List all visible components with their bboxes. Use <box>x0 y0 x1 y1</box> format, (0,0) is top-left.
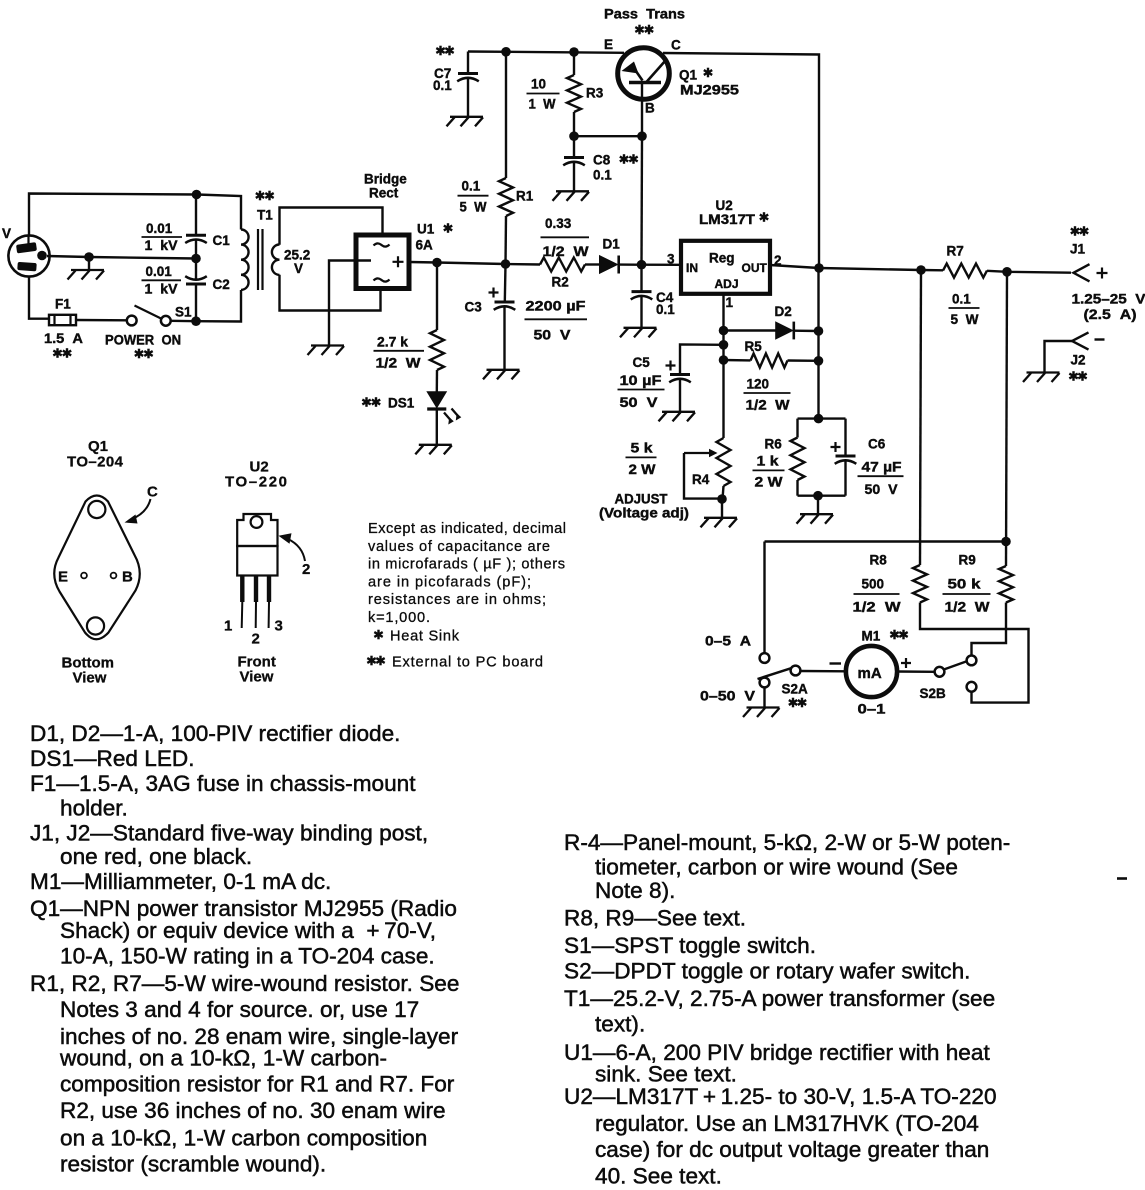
svg-text:Q1: Q1 <box>679 68 698 83</box>
arrow 2 to tab <box>279 533 306 561</box>
wire ADJ pin down <box>722 293 724 438</box>
wire meter rail to 0-5A terminal <box>763 542 765 653</box>
fraction bar R3 <box>527 93 560 95</box>
svg-text:3: 3 <box>275 618 283 635</box>
wire midpoint to C2 <box>195 259 197 280</box>
svg-text:R2, use 36 inches of no. 30 en: R2, use 36 inches of no. 30 enam wire <box>60 1098 446 1123</box>
label + (meter) <box>901 658 911 668</box>
svg-text:View: View <box>240 669 274 686</box>
wire R3 to C8 node <box>573 112 575 136</box>
svg-text:1 k: 1 k <box>757 454 780 469</box>
wire R4 ground stem <box>721 499 723 517</box>
potentiometer R4 <box>717 438 731 486</box>
capacitor C6 plus mark <box>831 442 841 452</box>
junction C1-C2 midpoint <box>191 254 201 264</box>
svg-text:V: V <box>294 261 303 276</box>
switch S2A 0-5A terminal <box>760 653 770 663</box>
fraction bar C2 <box>142 279 182 281</box>
capacitor C4 <box>632 290 652 293</box>
ground below C3 <box>483 370 520 380</box>
svg-text:ADJ: ADJ <box>715 277 739 291</box>
svg-text:1: 1 <box>224 618 232 635</box>
ground below R4 <box>701 518 738 528</box>
svg-text:R8, R9—See text.: R8, R9—See text. <box>564 906 746 931</box>
junction top rail R3 <box>569 47 579 57</box>
resistor R2 <box>540 258 585 272</box>
switch S2B lower terminal <box>967 682 977 692</box>
svg-text:500: 500 <box>862 577 885 592</box>
wire ADJ to R5 <box>724 359 751 362</box>
svg-text:TO–204: TO–204 <box>67 454 124 471</box>
svg-text:are in picofarads (pF);: are in picofarads (pF); <box>368 574 531 590</box>
svg-text:S2B: S2B <box>920 686 947 701</box>
svg-text:1.25–25 V: 1.25–25 V <box>1072 292 1145 307</box>
svg-text:50 V: 50 V <box>620 395 658 410</box>
switch S2A common terminal <box>791 666 801 676</box>
svg-text:S1: S1 <box>175 305 192 320</box>
svg-text:0.33: 0.33 <box>545 216 572 231</box>
wire R6 bottom <box>796 480 798 496</box>
wire ADJ to D2 <box>724 329 777 331</box>
LED DS1 <box>427 392 446 409</box>
parts list left column <box>30 721 459 1177</box>
transformer T1 secondary winding <box>272 245 280 275</box>
note ** below POWER <box>135 349 153 359</box>
svg-text:DS1—Red LED.: DS1—Red LED. <box>30 746 195 771</box>
wire R6 top <box>796 419 798 438</box>
svg-text:mA: mA <box>858 665 882 682</box>
switch S2B lever <box>945 661 967 669</box>
wire bridge + output <box>410 262 541 265</box>
junction at Q1 base column <box>637 260 647 270</box>
switch S1 lever <box>135 306 162 319</box>
note ** above C7 <box>436 46 453 56</box>
svg-text:Shack) or equiv device with a: Shack) or equiv device with a + 70-V, <box>60 918 436 943</box>
junction R4 ground <box>717 494 727 504</box>
svg-text:C5: C5 <box>633 355 651 370</box>
junction main rail at C3/R1 <box>501 259 511 269</box>
svg-text:1: 1 <box>726 295 734 310</box>
svg-text:R-4—Panel-mount, 5-kΩ, 2-W or: R-4—Panel-mount, 5-kΩ, 2-W or 5-W poten- <box>564 830 1010 855</box>
svg-text:LM317T: LM317T <box>699 212 756 227</box>
note ** above J1 <box>1071 226 1088 236</box>
wire plug mid to C1-C2 midpoint <box>47 256 196 259</box>
junction right column R6C6 top <box>814 414 824 424</box>
svg-text:M1—Milliammeter, 0-1 mA dc.: M1—Milliammeter, 0-1 mA dc. <box>30 869 331 894</box>
svg-text:0–50 V: 0–50 V <box>700 689 755 704</box>
transistor Q1 TO-204 outline <box>54 496 140 640</box>
wire R5 to right column <box>788 359 819 362</box>
fraction bar R6 <box>753 469 785 471</box>
switch S2A lever <box>758 668 791 679</box>
svg-text:R2: R2 <box>552 275 569 290</box>
svg-text:2 W: 2 W <box>629 462 656 477</box>
wire R9 column <box>1006 272 1007 566</box>
wire C8 to ground <box>573 162 575 191</box>
wire 2.7k to LED <box>436 370 439 392</box>
svg-text:3: 3 <box>667 252 675 267</box>
note ** before DS1 <box>362 397 380 407</box>
svg-text:B: B <box>122 569 133 586</box>
wire C5 to ground <box>679 379 681 411</box>
svg-text:1/2 W: 1/2 W <box>376 356 421 371</box>
svg-text:DS1: DS1 <box>388 396 415 411</box>
note ** below F1 <box>53 348 71 358</box>
svg-text:1 kV: 1 kV <box>145 281 178 296</box>
svg-text:S2—DPDT toggle or rotary wafer: S2—DPDT toggle or rotary wafer switch. <box>564 959 970 984</box>
fraction bar 2.7k <box>374 350 425 352</box>
regulator U2 TO-220 outline <box>237 514 277 628</box>
svg-text:2200 µF: 2200 µF <box>526 299 586 314</box>
wire R6C6 top rail <box>798 417 846 419</box>
wire LED to ground <box>436 409 438 444</box>
capacitor C8 <box>564 156 584 159</box>
svg-text:Rect: Rect <box>369 186 399 201</box>
wire R2 to D1 <box>585 263 600 265</box>
resistor R8 <box>913 565 927 603</box>
resistor R9 <box>999 566 1013 603</box>
switch S2A 0-50V terminal <box>760 678 770 688</box>
wire C1 stem <box>195 195 197 235</box>
wire C6 bottom <box>844 461 846 496</box>
svg-text:Reg: Reg <box>709 251 735 266</box>
R4 wiper arrow <box>684 449 718 458</box>
note * Heat Sink <box>374 630 382 640</box>
junction right column D2 <box>814 326 824 336</box>
wire C8 node to base column <box>574 135 642 137</box>
svg-text:1 W: 1 W <box>529 97 556 112</box>
wire R8 to S2B lower <box>920 603 1029 703</box>
junction top rail R1 <box>501 47 511 57</box>
wire R4 bottom <box>723 486 724 499</box>
wire base column to main rail <box>640 136 643 265</box>
svg-text:C2: C2 <box>213 277 230 292</box>
wire C5 tap <box>680 344 724 374</box>
wire ground stem <box>88 257 90 270</box>
wire C7 to ground <box>467 78 469 116</box>
svg-text:one red, one black.: one red, one black. <box>60 844 252 869</box>
binding post J1 <box>1074 264 1090 281</box>
wire plug top to transformer primary top <box>29 194 241 236</box>
svg-text:T1—25.2-V, 2.75-A power transf: T1—25.2-V, 2.75-A power transformer (see <box>564 986 995 1011</box>
svg-text:5 k: 5 k <box>631 441 654 456</box>
svg-text:E: E <box>604 37 613 52</box>
junction OUT and collector column <box>814 263 824 273</box>
AC plug V <box>8 235 49 276</box>
wire D1 to LM317 IN <box>619 263 681 266</box>
fraction bar C6 <box>858 475 904 477</box>
wire R1 to main rail <box>504 216 507 264</box>
wire C3 stem <box>504 264 507 302</box>
wire R8 column <box>920 270 921 565</box>
ground below J2 <box>1023 373 1060 383</box>
junction ADJ-D2 <box>719 326 729 336</box>
svg-text:B: B <box>645 101 655 116</box>
ground chassis at plug mid <box>68 270 105 280</box>
svg-text:50 k: 50 k <box>948 577 982 592</box>
svg-text:2: 2 <box>252 631 260 648</box>
svg-text:R4: R4 <box>692 472 710 487</box>
svg-text:C8: C8 <box>593 153 611 168</box>
svg-text:R3: R3 <box>586 86 604 101</box>
bridge AC symbol top <box>374 243 390 246</box>
svg-text:on a 10-kΩ, 1-W carbon composi: on a 10-kΩ, 1-W carbon composition <box>60 1126 427 1151</box>
junction right column R5 <box>814 356 824 366</box>
wire R7 to J1 <box>987 271 1071 273</box>
transformer T1 core <box>258 229 263 290</box>
ground below C7 <box>447 117 484 127</box>
capacitor C7 stem <box>467 52 469 74</box>
svg-text:C6: C6 <box>868 437 886 452</box>
junction ADJ-R5 <box>719 355 729 365</box>
svg-text:R9: R9 <box>959 553 976 568</box>
junction at plug mid ground tap <box>84 252 94 262</box>
switch S2B common terminal <box>935 667 945 677</box>
wire D2 to right column <box>794 330 819 333</box>
capacitor C5 plus mark <box>666 361 676 371</box>
junction above C1 <box>192 190 202 200</box>
svg-text:1.5 A: 1.5 A <box>44 331 83 346</box>
svg-text:U2: U2 <box>716 198 733 213</box>
svg-text:U1: U1 <box>417 222 435 237</box>
wire secondary bottom to bridge <box>280 275 381 311</box>
svg-text:1 kV: 1 kV <box>145 238 178 253</box>
svg-text:2 W: 2 W <box>755 474 783 489</box>
arrow C to case <box>125 499 151 524</box>
svg-text:R7: R7 <box>947 244 964 259</box>
svg-text:T1: T1 <box>257 208 273 223</box>
fraction bar R2 <box>541 236 590 238</box>
svg-text:TO–220: TO–220 <box>225 474 287 491</box>
note * after LM317T <box>760 212 768 222</box>
junction R9 tap <box>1002 267 1012 277</box>
svg-text:5 W: 5 W <box>951 312 979 327</box>
svg-text:S1—SPST toggle switch.: S1—SPST toggle switch. <box>564 933 816 958</box>
capacitor C4 stem <box>640 265 642 292</box>
svg-text:10: 10 <box>531 77 546 92</box>
wire fuse to switch S1 <box>76 319 127 322</box>
svg-text:OUT: OUT <box>742 261 768 275</box>
fraction bar R5 <box>744 392 791 394</box>
note ** Pass Trans <box>635 25 653 35</box>
capacitor C6 <box>836 455 856 458</box>
wire Q1 collector to right column <box>663 53 819 268</box>
transformer T1 primary winding <box>241 230 249 290</box>
wire Q1 base down <box>641 83 643 136</box>
resistor 2.7k <box>430 330 444 370</box>
svg-text:S2A: S2A <box>782 682 809 697</box>
svg-text:0.1: 0.1 <box>952 292 971 307</box>
svg-text:50 V: 50 V <box>865 482 898 497</box>
capacitor C5 <box>670 373 690 376</box>
svg-text:0.01: 0.01 <box>146 264 173 279</box>
svg-text:sink. See text.: sink. See text. <box>595 1062 737 1087</box>
capacitor C8 stem <box>573 136 575 157</box>
svg-text:J1: J1 <box>1070 242 1086 257</box>
switch S1 left terminal <box>127 316 137 326</box>
svg-text:wound, on a 10-kΩ, 1-W carbon-: wound, on a 10-kΩ, 1-W carbon- <box>59 1046 387 1071</box>
svg-text:5 W: 5 W <box>460 200 487 215</box>
capacitor C3 <box>495 301 515 304</box>
junction C8 left <box>569 131 579 141</box>
svg-text:0.1: 0.1 <box>433 78 452 93</box>
wire 0-50V ground stem <box>763 688 765 707</box>
resistor R7 <box>943 264 987 278</box>
bridge AC symbol bottom <box>374 278 390 281</box>
svg-text:resistances are in ohms;: resistances are in ohms; <box>368 592 546 608</box>
wire top rail left <box>468 52 624 53</box>
binding post J2 <box>1072 332 1089 349</box>
ground below DS1 <box>415 445 452 455</box>
svg-text:50 V: 50 V <box>534 328 571 343</box>
svg-text:holder.: holder. <box>60 796 128 821</box>
wire switch to transformer primary bottom <box>171 290 241 322</box>
svg-text:F1: F1 <box>55 297 71 312</box>
wire C6 top <box>844 419 846 456</box>
wire C4 to ground <box>640 296 642 327</box>
note ** below S2A <box>789 698 806 708</box>
svg-text:0–5 A: 0–5 A <box>705 634 751 649</box>
fraction bar C1 <box>142 236 183 238</box>
svg-text:MJ2955: MJ2955 <box>680 83 740 98</box>
svg-text:Bridge: Bridge <box>364 172 407 187</box>
resistor R5 <box>751 354 788 368</box>
note ** after M1 <box>890 630 907 640</box>
svg-text:Note 8).: Note 8). <box>595 878 675 903</box>
note ** below J2 <box>1069 371 1086 381</box>
svg-text:0.1: 0.1 <box>656 302 675 317</box>
switch S2B upper terminal <box>967 656 977 666</box>
wire C3 to ground <box>503 307 505 370</box>
note ** External <box>367 656 384 666</box>
stray mark dash <box>1117 877 1127 880</box>
junction below C2 <box>191 316 201 326</box>
parts list right column <box>564 830 1010 1189</box>
wire bridge output to DS1 resistor <box>436 263 438 331</box>
resistor R6 <box>791 438 805 481</box>
svg-text:0.1: 0.1 <box>593 168 612 183</box>
junction C8 right at base column <box>637 131 647 141</box>
svg-text:R5: R5 <box>745 339 763 354</box>
label - (J2) <box>1095 338 1105 340</box>
wire S2A to meter <box>801 670 847 673</box>
svg-text:C3: C3 <box>465 300 483 315</box>
op-amp U2 regulator box <box>681 241 770 294</box>
wire R9 to S2B upper <box>972 603 1007 656</box>
junction ADJ-C5 <box>719 340 729 350</box>
svg-text:IN: IN <box>686 261 698 275</box>
svg-text:(2.5 A): (2.5 A) <box>1084 307 1137 322</box>
svg-text:0.1: 0.1 <box>462 179 481 194</box>
svg-text:D1: D1 <box>603 237 621 252</box>
svg-text:k=1,000.: k=1,000. <box>368 610 430 626</box>
fraction bar R9 <box>943 593 991 595</box>
capacitor C1 <box>186 234 206 237</box>
transistor Q1 <box>618 48 670 100</box>
svg-text:D1, D2—1-A, 100-PIV rectifier: D1, D2—1-A, 100-PIV rectifier diode. <box>30 721 400 746</box>
svg-text:V: V <box>2 226 11 241</box>
wire secondary top to bridge <box>280 208 383 245</box>
svg-text:1/2 W: 1/2 W <box>543 244 589 259</box>
svg-text:U2—LM317T + 1.25- to 30-V, 1.5: U2—LM317T + 1.25- to 30-V, 1.5-A TO-220 <box>564 1084 997 1109</box>
svg-text:2.7 k: 2.7 k <box>377 335 409 350</box>
ground below bridge <box>308 346 345 356</box>
ground below C8 <box>553 191 590 201</box>
svg-text:10 µF: 10 µF <box>620 373 662 388</box>
svg-text:Except as indicated, decimal: Except as indicated, decimal <box>368 521 566 537</box>
note ** after C8 <box>620 154 638 164</box>
fraction bar R1 <box>458 195 489 197</box>
svg-text:F1—1.5-A, 3AG fuse in chassis-: F1—1.5-A, 3AG fuse in chassis-mount <box>30 771 416 796</box>
wire C2 to bottom <box>195 284 197 321</box>
svg-text:R1: R1 <box>516 189 534 204</box>
svg-text:1/2 W: 1/2 W <box>746 398 790 413</box>
capacitor C7 <box>458 72 478 75</box>
svg-text:120: 120 <box>747 377 770 392</box>
svg-text:M1: M1 <box>862 629 881 644</box>
fraction bar R8 <box>854 593 900 595</box>
svg-text:47 µF: 47 µF <box>862 459 902 474</box>
ground below C5 <box>659 412 696 422</box>
svg-text:1/2 W: 1/2 W <box>853 600 901 615</box>
svg-text:case) for dc output voltage gr: case) for dc output voltage greater than <box>595 1137 989 1162</box>
svg-text:C: C <box>147 484 158 501</box>
ground below C4 <box>620 328 657 338</box>
note ** above T1 <box>256 191 274 201</box>
LED light arrows <box>444 409 461 425</box>
fuse F1 <box>49 315 76 325</box>
wire C1 to midpoint <box>195 240 197 259</box>
svg-text:E: E <box>58 569 68 586</box>
svg-text:J1, J2—Standard five-way bindi: J1, J2—Standard five-way binding post, <box>30 821 428 846</box>
svg-text:Q1: Q1 <box>88 438 108 455</box>
svg-text:resistor (scramble wound).: resistor (scramble wound). <box>60 1152 326 1177</box>
wire meter select rail <box>765 540 1007 542</box>
diode D1 <box>600 256 619 274</box>
svg-text:text).: text). <box>595 1012 645 1037</box>
capacitor C3 plus mark <box>489 288 499 298</box>
svg-text:40. See text.: 40. See text. <box>595 1164 722 1189</box>
ground below R6C6 <box>797 514 834 524</box>
svg-text:Notes 3 and 4 for source. or,: Notes 3 and 4 for source. or, use 17 <box>60 997 419 1022</box>
svg-text:J2: J2 <box>1071 353 1086 368</box>
svg-text:0–1: 0–1 <box>858 702 887 717</box>
junction R8 tap <box>916 265 926 275</box>
fraction bar R4 <box>626 456 657 458</box>
wire R6C6 ground stem <box>817 496 819 514</box>
svg-text:R6: R6 <box>765 437 783 452</box>
junction R6C6 ground <box>813 491 823 501</box>
svg-text:Heat Sink: Heat Sink <box>390 629 460 645</box>
fraction bar R7 <box>949 307 980 309</box>
fraction bar C3 <box>525 318 588 320</box>
svg-text:tiometer, carbon or wire wound: tiometer, carbon or wire wound (See <box>595 855 958 880</box>
wire OUT pin to J1 <box>770 265 943 270</box>
resistor R3 <box>567 75 581 112</box>
wire R4 wiper to bottom <box>684 453 722 499</box>
svg-text:D2: D2 <box>775 304 792 319</box>
resistor R1 <box>499 178 513 216</box>
diode D2 <box>776 322 794 340</box>
svg-text:6A: 6A <box>416 238 434 253</box>
svg-text:R8: R8 <box>870 553 888 568</box>
bridge rectifier U1 box <box>356 235 409 289</box>
meter M1 <box>846 646 897 697</box>
junction bridge output <box>432 258 442 268</box>
wire plug bottom to fuse <box>29 277 50 319</box>
svg-text:0.01: 0.01 <box>146 221 173 236</box>
ground below 0-50V <box>743 708 780 718</box>
